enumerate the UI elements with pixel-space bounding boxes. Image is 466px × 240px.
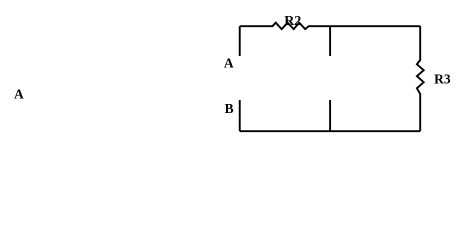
wire: middle branch bottom stub: [329, 100, 331, 131]
svg-text:A: A: [224, 55, 234, 70]
wire: terminal A stub (left top vertical): [239, 26, 241, 56]
wire: right vertical with resistor R3 zigzag: [417, 26, 424, 131]
wire: terminal B stub (left bottom vertical): [239, 100, 241, 131]
wire: middle branch top stub: [329, 26, 331, 56]
svg-text:A: A: [14, 86, 24, 101]
svg-text:R2: R2: [284, 14, 301, 29]
svg-text:R3: R3: [434, 72, 451, 87]
svg-text:B: B: [225, 101, 234, 116]
wire: top segment with resistor R2 zigzag: [240, 23, 420, 29]
wire: bottom segment: [240, 130, 420, 132]
